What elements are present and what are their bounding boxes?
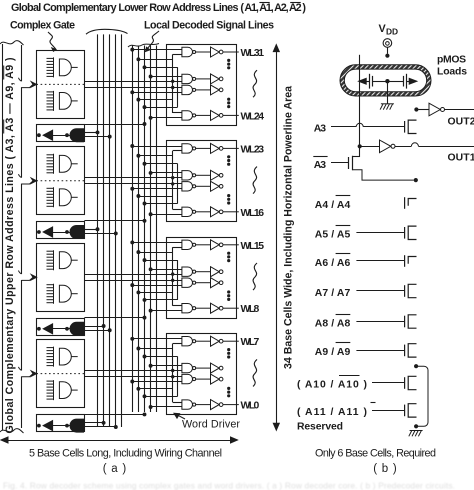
word driver WD3 input wire from local line 1 [132,242,182,244]
complex gate CG3 output wire 2 [84,280,181,282]
driver cell D3 output node dot [37,327,41,331]
driver cell box D1 [37,125,85,142]
pMOS load left transistor Q1 [359,78,367,84]
complex gate CG1 output wire 2 [84,87,181,89]
VDD terminal double circle [383,39,392,48]
svg-text:( A1, A1, A2, A2 ): ( A1, A1, A2, A2 ) [240,2,306,14]
complex gate box CG2 [37,147,85,215]
VDD node dot [385,54,389,58]
svg-text:WL23: WL23 [241,144,265,155]
driver cell box D3 [37,319,85,336]
driver cell D2 AND gate (filled, pointing left) [70,226,84,239]
word driver WD1 internal vertical wire 1 [172,54,174,113]
svg-text:5 Base Cells Long, Including W: 5 Base Cells Long, Including Wiring Chan… [29,448,222,460]
overbar A1 [259,2,269,4]
word driver WD3 input wire from local line 3 [145,260,178,262]
complex gate box CG1 [37,51,85,119]
continuation squiggle WD3 [253,263,257,290]
complex gate CG1 dotted partition line [36,83,84,85]
word driver WD2 NAND+inverter row 2 [182,171,193,180]
driver cell D1 junction dot [65,133,69,137]
A3 wire with hop over VDD rail [331,126,356,128]
word driver WD3 input wire from local line 2 [138,252,172,254]
svg-text:A3: A3 [314,160,326,171]
driver cell box D4 [37,415,85,432]
pass transistor for A5 [404,227,406,239]
svg-text:A3: A3 [314,124,326,135]
word driver WD4 lower ellipsis dots [227,387,230,390]
word driver WD4 input wire from local line 2 [138,348,172,350]
word driver WD2 input wire from local line 3 [145,163,178,165]
word driver WD2 long wire crossing dots [171,176,174,179]
complex gate CG4 upper AND gate with comb inputs [53,347,55,367]
complex gate CG2 lower AND gate with comb inputs [53,187,55,207]
bus global complementary upper row address lines - left rail [2,44,4,430]
word driver WD4 NAND+inverter row 2 [182,363,193,372]
pass transistor for A7 [404,285,406,297]
word driver WD4 input wire from local line 3 [145,356,178,358]
svg-text:A7 / A7: A7 / A7 [315,288,351,299]
word driver WD2 internal vertical wire 1 [172,151,174,210]
driver cell D4 AND gate (filled, pointing left) [70,419,84,432]
svg-text:Loads: Loads [437,67,467,78]
overbar A2 [290,2,301,4]
continuation squiggle WD4 [253,359,257,386]
continuation squiggle WD2 [253,167,257,194]
word driver WD3 input wire from local line 4 [151,269,182,271]
VDD rail vertical wire [359,55,361,157]
driver cell D3 lower output wire [84,330,110,332]
word driver WD2 NAND+inverter row WL23 [182,144,193,153]
complex gate CG1 upper AND gate with comb inputs [53,57,55,77]
svg-text:WL0: WL0 [241,401,260,412]
driver cell D1 upper output wire [84,132,98,134]
complex gate CG2 upper AND gate with comb inputs [53,154,55,174]
pass transistor for A6 [404,255,406,267]
driver cell D4 inverter (filled, pointing left) [43,421,52,431]
driver cell D4 upper output wire [84,422,104,424]
word driver WD3 NAND+inverter row WL15 [182,240,193,249]
svg-text:WL16: WL16 [241,208,265,219]
svg-text:( a ): ( a ) [103,463,127,475]
complex gate CG3 lower AND gate with comb inputs [53,284,55,304]
wire A8 to transistor [356,321,404,323]
svg-text:Only 6 Base Cells, Required: Only 6 Base Cells, Required [315,448,436,460]
complex gate box CG4 [37,340,85,408]
driver cell D1 inverter (filled, pointing left) [43,130,52,140]
svg-text:A8 / A8: A8 / A8 [315,318,351,329]
driver cell D3 junction dot [65,327,69,331]
complex gate box CG3 [37,244,85,312]
svg-text:Fig. 4. Row decoder scheme usi: Fig. 4. Row decoder scheme using complex… [3,481,455,490]
driver cell D1 AND gate (filled, pointing left) [70,129,84,142]
label global complementary upper row address lines (vertical) [4,58,16,434]
complex gate CG2 output wire 2 [84,183,181,185]
word driver WD1 lower ellipsis dots [227,98,230,101]
word driver WD2 input wire from local line 3 [145,203,178,205]
word driver WD1 input wire from local line 4 [151,117,182,119]
A3 pass transistor [404,121,406,133]
driver cell D4 junction dot [65,424,69,428]
complex gate CG3 upper AND gate with comb inputs [53,250,55,270]
word driver WD4 NAND+inverter row 3 [182,374,193,383]
complex gate CG1 lower AND gate with comb inputs [53,91,55,111]
word driver WD2 input wire from local line 4 [151,172,182,174]
driver cell D4 wire inverter-AND [53,425,70,427]
word driver WD3 NAND+inverter row 2 [182,267,193,276]
word driver WD3 input wire from local line 4 [151,310,182,312]
pMOS loads ground stub [387,83,389,104]
pass transistor for A8 [404,316,406,328]
svg-text:( A10 / A10 ): ( A10 / A10 ) [297,380,367,391]
global lower address line A-bus 3 [109,34,111,427]
driver cell D2 output node dot [37,230,41,234]
word driver WD1 input wire from local line 2 [138,99,172,101]
A3-bar source node dot [414,178,418,182]
word driver WD1 input wire from local line 3 [145,67,178,69]
word driver WD2 input wire from local line 2 [138,155,172,157]
svg-text:WL15: WL15 [241,241,265,252]
wire A9 to transistor [356,350,404,352]
pMOS loads center node dot [385,79,389,83]
wire A5 to transistor [356,232,404,234]
word driver WD3 long wire crossing dots [171,272,174,275]
word driver box WD2 [167,141,237,222]
pMOS load right transistor Q2 [389,81,403,83]
OUT1 inverter [360,146,380,148]
word driver WD2 NAND+inverter row WL16 [182,207,193,216]
word driver WD1 NAND+inverter row WL24 [182,111,193,120]
svg-text:WL31: WL31 [241,48,265,59]
driver cell D2 inverter (filled, pointing left) [43,227,52,237]
bus top tear [0,41,24,45]
driver cell D1 output node dot [37,133,41,137]
complex gate CG3 output wire 1 [84,274,181,276]
word driver box WD3 [167,238,237,319]
word driver WD1 input wire from local line 4 [151,76,182,78]
word driver pointer arrow [177,415,185,419]
driver cell D2 lower output wire [84,233,116,235]
complex gate CG2 output wire 1 [84,177,181,179]
driver cell D2 wire inverter-AND [53,232,70,234]
word driver WD1 long wire crossing dots [171,80,174,83]
word driver WD2 input wire from local line 1 [132,146,182,148]
A3-bar wire [331,162,349,164]
bus branch arrow into complex gate 2 [22,181,33,184]
vertical dimension arrow 34 base cells [276,49,278,426]
label 34 base cells wide (vertical) [283,86,295,369]
word driver WD4 input wire from local line 4 [151,406,182,408]
word driver box WD1 [167,45,237,126]
bus branch arrow into complex gate 3 [22,278,33,281]
complex gate CG2 dotted partition line [36,180,84,182]
global lower address line A-bus 5 [121,34,123,427]
word driver WD1 input wire from local line 3 [145,107,178,109]
driver cell D2 top edge wire [84,220,144,222]
driver cell box D2 [37,222,85,239]
svg-text:A9 / A9: A9 / A9 [315,347,351,358]
svg-text:Word Driver: Word Driver [182,419,240,431]
driver cell D2 upper output wire [84,229,98,231]
word driver WD4 input wire from local line 2 [138,388,172,390]
global lower address line A-bus 2 [103,34,105,427]
word driver WD3 input wire from local line 1 [132,285,182,287]
faint caption at bottom edge [3,481,455,490]
local decoded signal line B-bus 2 [138,46,140,413]
word driver WD2 NAND+inverter row 3 [182,182,193,191]
local decoded signal line B-bus 3 [144,46,146,413]
word driver WD2 lower ellipsis dots [227,194,230,197]
word driver WD4 long wire crossing dots [171,369,174,372]
driver cell D2 junction dot [65,230,69,234]
word driver WD3 internal vertical wire 2 [177,260,179,300]
svg-text:( b ): ( b ) [373,463,397,475]
local decoded signal line B-bus 4 [150,46,152,413]
svg-text:Complex Gate: Complex Gate [10,20,75,32]
svg-text:Global Complementary Lower Row: Global Complementary Lower Row Address L… [11,2,239,14]
continuation squiggle WD1 [253,70,257,97]
word driver WD2 input wire from local line 1 [132,188,182,190]
VDD wire [387,47,389,54]
A3-bar nMOS transistor Q3 [348,157,350,169]
complex gate CG4 output wire 2 [84,376,181,378]
OUT1 output wire with hop [395,146,411,148]
word driver WD4 input wire from local line 3 [145,396,178,398]
svg-text:DD: DD [386,26,398,36]
driver cell D3 AND gate (filled, pointing left) [70,322,84,335]
word driver WD1 internal vertical wire 2 [177,67,179,107]
svg-text:A6 / A6: A6 / A6 [315,258,351,269]
svg-text:OUT2: OUT2 [448,117,474,128]
complex gate CG4 output wire 1 [84,370,181,372]
global lower address line A-bus 1 [97,34,99,427]
word driver WD3 internal vertical wire 1 [172,247,174,306]
driver cell D3 inverter (filled, pointing left) [43,324,52,334]
wire A11 [372,410,405,412]
svg-text:WL8: WL8 [241,304,260,315]
word driver WD3 NAND+inverter row 3 [182,278,193,287]
word driver WD1 NAND+inverter row 3 [182,85,193,94]
word driver WD1 input wire from local line 1 [132,49,182,51]
reserved tie wire to ground [414,364,418,368]
word driver WD2 internal vertical wire 2 [177,164,179,204]
OUT2 output wire [445,109,474,111]
word driver WD4 NAND+inverter row WL7 [182,337,193,346]
driver cell D4 output node dot [37,424,41,428]
word driver WD1 NAND+inverter row WL31 [182,47,193,56]
svg-text:WL24: WL24 [241,111,265,122]
driver cell D3 top edge wire [84,317,144,319]
word driver WD4 internal vertical wire 2 [177,357,179,397]
svg-text:A5 / A5: A5 / A5 [315,230,351,241]
svg-text:Global Complementary Upper Row: Global Complementary Upper Row Address L… [4,58,16,434]
pass transistor for A9 [404,345,406,357]
word driver WD3 NAND+inverter row WL8 [182,304,193,313]
word driver WD4 NAND+inverter row WL0 [182,400,193,409]
word driver WD4 internal vertical wire 1 [172,344,174,403]
word driver WD1 NAND+inverter row 2 [182,74,193,83]
horizontal dimension arrow 5 base cells [5,440,235,442]
complex gate CG4 lower AND gate with comb inputs [53,380,55,400]
word driver WD1 upper ellipsis dots [227,59,230,62]
driver cell D1 top edge wire [84,124,144,126]
bus A top brace [86,29,128,34]
bus bottom tear [0,429,24,433]
wire A7 to transistor [356,290,404,292]
word driver WD2 input wire from local line 2 [138,196,172,198]
svg-text:Reserved: Reserved [297,422,343,433]
word driver WD4 input wire from local line 1 [132,381,182,383]
word driver WD3 lower ellipsis dots [227,290,230,293]
word driver box WD4 [167,334,237,415]
word driver WD3 input wire from local line 3 [145,299,178,301]
pass transistor A11 [404,405,406,417]
OUT2 inverter [419,109,430,111]
word driver WD1 input wire from local line 1 [132,92,182,94]
svg-text:WL7: WL7 [241,337,260,348]
svg-text:A4 / A4: A4 / A4 [315,200,351,211]
bus branch arrow into complex gate 1 [22,85,33,88]
word driver WD2 upper ellipsis dots [227,155,230,158]
global lower address line A-bus 4 [115,34,117,427]
svg-text:( A11 / A11 ): ( A11 / A11 ) [297,407,367,418]
OUT2 input node dot [414,107,418,111]
driver cell D4 top edge wire [84,414,144,416]
complex gate CG1 output wire 1 [84,81,181,83]
pointer to complex gate [48,32,56,50]
driver cell D1 lower output wire [84,136,110,138]
bus right rail (with gaps at branch points) [21,45,23,81]
wire A6 to transistor [356,260,404,262]
driver cell D1 wire inverter-AND [53,135,70,137]
pass transistor for A4 [404,197,406,209]
word driver WD4 upper ellipsis dots [227,348,230,351]
svg-text:Local Decoded Signal Lines: Local Decoded Signal Lines [144,20,274,32]
ground symbol part b bottom [410,430,423,432]
driver cell D4 lower output wire [84,426,116,428]
driver cell D3 upper output wire [84,326,104,328]
local decoded signal line B-bus 5 [156,46,158,413]
svg-text:OUT1: OUT1 [448,153,474,164]
pointer to local decoded signal lines [146,31,160,52]
driver cell D3 wire inverter-AND [53,328,70,330]
pass transistor A10 [404,377,406,389]
word driver WD3 upper ellipsis dots [227,252,230,255]
bus B top tear [128,44,159,48]
word driver WD4 input wire from local line 1 [132,338,182,340]
local decoded signal line B-bus 1 [132,46,134,413]
word driver WD2 input wire from local line 4 [151,214,182,216]
OUT1 branch dot [358,144,362,148]
word driver WD4 input wire from local line 4 [151,365,182,367]
word driver WD3 input wire from local line 2 [138,292,172,294]
svg-text:34 Base Cells Wide, Including: 34 Base Cells Wide, Including Horizontal… [283,86,295,369]
ground symbol under pMOS loads [381,103,394,105]
bus branch arrow into complex gate 4 [22,374,33,377]
svg-text:pMOS: pMOS [437,55,466,66]
wire A10 [372,382,405,384]
word driver WD1 input wire from local line 2 [138,59,172,61]
complex gate CG4 dotted partition line [36,373,84,375]
